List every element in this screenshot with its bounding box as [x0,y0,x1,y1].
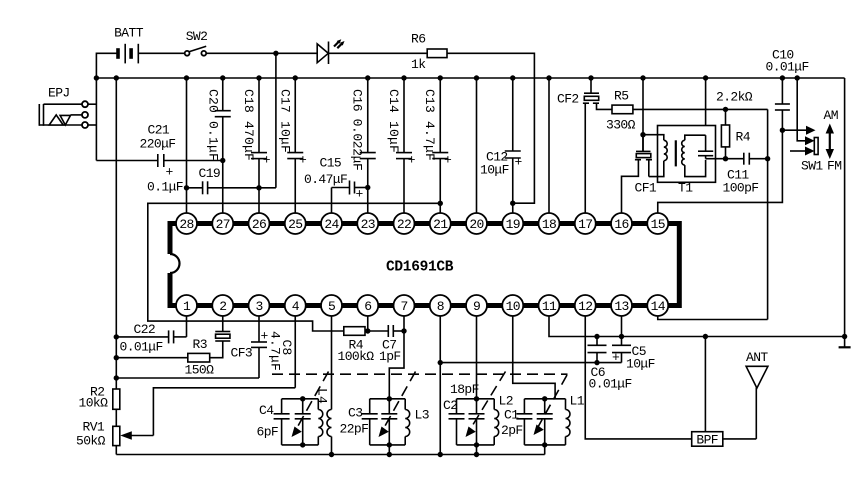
wire pin12 drop to BPF [585,316,691,439]
svg-text:T1: T1 [678,181,693,196]
svg-text:2pF: 2pF [501,423,523,438]
pin 6 [357,295,378,316]
wire T1 left drop [642,78,644,151]
inductor L4 [315,388,332,455]
node bus T1 right [703,75,708,80]
svg-text:16: 16 [614,217,628,232]
node bus x116 [114,75,119,80]
ceramic filter CF1 [622,135,657,213]
svg-text:+: + [612,350,620,365]
svg-text:C18 470μF: C18 470μF [241,89,256,161]
resistor R6 1k [411,32,447,73]
wire pin10 drop to C1 tank [513,316,555,399]
svg-text:330Ω: 330Ω [606,118,636,133]
svg-text:0.47μF: 0.47μF [304,172,347,187]
battery BATT [114,26,144,64]
wire R6 to pin19 net [447,53,535,203]
wire pin11 drop [549,316,845,337]
earphone jack EPJ [39,86,96,129]
node C6 bottom [594,360,599,365]
node pin7 C7 [401,328,406,333]
wire R5 to right riser [633,108,768,110]
capacitor C10 0.01uF [766,48,809,131]
svg-text:0.01μF: 0.01μF [766,59,809,74]
capacitor C17 10uF in pin25 line [278,78,308,213]
wire C8 bottom to left vertical [116,377,259,379]
pin 20 [466,213,487,234]
svg-text:220μF: 220μF [140,136,176,151]
svg-text:0.01μF: 0.01μF [120,340,163,355]
wire pin28 drop [186,78,188,213]
node C10 bottom SW1 [780,128,785,133]
pin 3 [249,295,270,316]
capacitor C7 1pF [368,325,404,364]
svg-text:18pF: 18pF [450,382,479,397]
node bus pin19 [510,75,515,80]
node T1 right top [703,133,708,138]
svg-text:CF1: CF1 [635,181,657,196]
node bus pin23 [365,75,370,80]
resistor R5 330ohm [606,89,636,133]
svg-text:5: 5 [328,299,335,314]
svg-text:R5: R5 [614,89,628,104]
pin 27 [212,213,233,234]
wire pin1 drop [186,316,188,337]
svg-text:27: 27 [216,217,230,232]
pin 2 [212,295,233,316]
pin 10 [502,295,523,316]
svg-text:+: + [261,329,269,344]
svg-text:21: 21 [433,217,448,232]
capacitor C19 0.1uF [147,166,276,195]
svg-text:C19: C19 [199,166,221,181]
pin 23 [357,213,378,234]
pin 7 [394,295,415,316]
node C3 tank top [387,396,392,401]
capacitor C8 4.7uF [251,316,294,378]
node R4 top on R5 wire [723,107,728,112]
svg-text:8: 8 [437,299,444,314]
svg-text:CF3: CF3 [231,346,253,361]
svg-text:1: 1 [183,299,191,314]
svg-text:CD1691CB: CD1691CB [386,260,454,276]
node L4 ground bus [329,452,334,457]
node T1 left top [640,132,645,137]
node C1 tank bottom [542,442,547,447]
node bus pin18 [546,75,551,80]
svg-text:R4: R4 [736,130,751,145]
capacitor C18 470uF in pin26 line [241,78,271,213]
inductor L3 [405,399,429,445]
pin 12 [575,295,596,316]
node pin6 R4 C7 [365,328,370,333]
svg-text:2.2kΩ: 2.2kΩ [716,90,753,105]
wire right edge to ground [844,78,846,337]
wire pin14 to riser x767 [658,316,768,320]
ground [839,337,851,348]
node C15 right pin23 [365,185,370,190]
antenna ANT [746,350,768,439]
node C1 tank top [542,396,547,401]
node bus pin25 [293,75,298,80]
wire C6 C5 bottom to pin8 [440,362,621,364]
svg-text:12: 12 [578,299,592,314]
wire pin13 drop [621,316,623,337]
wire bottom ground bus [116,454,544,456]
tank C3 L3 bottom wire [370,444,406,446]
svg-text:CF2: CF2 [557,92,579,107]
svg-text:24: 24 [324,217,339,232]
wire pin6 drop [367,316,369,331]
wire SW2 to LED [206,52,317,54]
capacitor C5 10uF [612,337,655,372]
pin 13 [611,295,632,316]
svg-text:C20 0.1μF: C20 0.1μF [206,89,221,161]
svg-text:4: 4 [292,299,300,314]
svg-text:+: + [408,153,416,168]
svg-text:6pF: 6pF [257,425,279,440]
wire main bus [96,77,844,79]
ceramic filter CF2 [557,78,612,213]
variable capacitor C1 trimmer [534,375,568,445]
capacitor C6 0.01uF [588,337,632,392]
svg-text:BATT: BATT [114,26,144,41]
node pin8 C6 wire [438,360,443,365]
node ground net right end [842,334,847,339]
wire T1 right drop [705,78,707,151]
tank C2 L2 bottom wire [457,444,495,446]
node C21 at pin27 line [220,158,225,163]
node bus T1 left [640,75,645,80]
svg-text:0.1μF: 0.1μF [147,180,183,195]
wire right riser x767 [767,109,769,319]
svg-text:+: + [515,155,523,170]
wire pin9 drop through C2 tank [476,316,478,414]
node bus pin28 [184,75,189,80]
variable capacitor C4 trimmer [292,372,329,445]
svg-text:RV1: RV1 [83,420,105,435]
node bus SW1 [795,75,800,80]
svg-text:AM: AM [824,108,838,123]
svg-text:SW1: SW1 [801,159,823,174]
svg-text:20: 20 [469,217,483,232]
svg-text:10kΩ: 10kΩ [79,396,109,411]
svg-text:100kΩ: 100kΩ [338,349,375,364]
svg-text:1k: 1k [411,57,426,72]
svg-text:1pF: 1pF [379,349,401,364]
node C8 wire left [114,375,119,380]
pin 19 [502,213,523,234]
wire left vertical x116 [115,78,117,389]
svg-text:10: 10 [506,299,520,314]
node ground net at pin13 [619,334,624,339]
pin 17 [575,213,596,234]
svg-text:C21: C21 [148,123,170,138]
tank C1 L1 top wire [524,398,565,400]
node C3 ground bus [387,452,392,457]
svg-text:50kΩ: 50kΩ [76,434,106,449]
svg-text:0.01μF: 0.01μF [589,377,632,392]
tank C4 L4 top wire [282,398,319,400]
svg-text:L2: L2 [499,394,513,409]
resistor R4 [721,109,750,158]
svg-text:+: + [356,187,364,202]
wire battery to SW2 [138,52,184,54]
inductor L1 [566,394,585,445]
switch SW1 AM/FM [782,78,823,174]
svg-text:22pF: 22pF [340,422,369,437]
pin 11 [539,295,560,316]
LED D1 [317,39,344,64]
node C2 tank top [474,396,479,401]
svg-text:C13 4.7μF: C13 4.7μF [422,89,437,161]
pin 5 [321,295,342,316]
node SW2 output to C19 net [273,51,278,188]
svg-text:C3: C3 [348,406,362,421]
svg-text:L3: L3 [415,408,429,423]
node R6 net at pin 19 [510,201,515,206]
svg-text:3: 3 [255,299,262,314]
svg-text:ANT: ANT [746,350,768,365]
resistor R3 150ohm [116,337,222,378]
svg-text:4.7μF: 4.7μF [268,331,283,371]
svg-text:SW2: SW2 [186,29,208,44]
node bus pin20 [474,75,479,80]
pin 8 [430,295,451,316]
svg-text:26: 26 [252,217,266,232]
wire top rail left [96,53,116,160]
node bus C10 [780,75,785,80]
svg-text:+: + [444,153,452,168]
svg-text:28: 28 [179,217,193,232]
pin 26 [249,213,270,234]
svg-text:10μF: 10μF [626,357,655,372]
wire pin20 drop [476,78,478,213]
svg-text:150Ω: 150Ω [185,363,215,378]
node C3 tank bottom [387,442,392,447]
svg-text:10μF: 10μF [480,163,509,178]
capacitor C16 0.022uF in pin23 line [350,78,376,213]
pin 14 [647,295,668,316]
capacitor C11 100pF [723,153,768,196]
band select double arrow [826,124,834,160]
wire pin18 drop [548,78,550,213]
svg-text:+: + [263,153,271,168]
node bus pin22 [401,75,406,80]
wire C3 tank to ground bus [388,445,390,455]
op-amp U1 CD1691CB IC body [170,221,679,308]
resistor R2 10k [79,385,120,427]
svg-text:9: 9 [473,299,480,314]
capacitor C12 10uF in pin19 line [480,78,523,213]
pin 9 [466,295,487,316]
svg-text:14: 14 [651,299,666,314]
wire pin9 tank lower [476,419,478,455]
svg-text:L4: L4 [315,388,330,404]
capacitor C14 10uF in pin22 line [386,78,416,213]
wire pin5 drop to L4 [331,316,333,410]
svg-text:C1: C1 [504,408,519,423]
svg-text:7: 7 [400,299,407,314]
node pin8 ground bus [438,452,443,457]
variable capacitor C3 trimmer [379,372,416,445]
svg-text:22: 22 [397,217,411,232]
svg-text:BPF: BPF [696,433,718,448]
svg-text:R3: R3 [193,337,207,352]
svg-text:EPJ: EPJ [48,86,70,101]
potentiometer RV1 50k [76,388,295,455]
wire pin7 drop to C3 tank [389,316,404,399]
capacitor C20 0.1uF in pin27 line [206,78,231,213]
svg-text:18: 18 [542,217,556,232]
node bus pin27 [220,75,225,80]
wire pin15 to SW1 net [658,130,783,213]
capacitor C1 2pF [501,399,532,445]
node C19 right pin26 [256,185,261,190]
svg-text:25: 25 [288,217,302,232]
pin 22 [394,213,415,234]
node C11 right [765,156,770,161]
node bus pin21 [438,75,443,80]
node C4 tank top [300,396,305,401]
svg-text:2: 2 [219,299,226,314]
node C2 tank bottom [474,442,479,447]
node pin9 ground bus [474,452,479,457]
node R3 left [114,355,119,360]
svg-text:6: 6 [364,299,371,314]
node C4 tank bottom [300,442,305,447]
pin 16 [611,213,632,234]
tank C4 L4 bottom wire [282,444,319,446]
node bus CF2 [588,75,593,80]
pin 15 [647,213,668,234]
inductor L2 [494,394,513,445]
node pin1 net at pin21 [438,201,443,206]
svg-text:+: + [166,165,174,180]
BPF block [692,337,757,448]
node bus x96 [94,75,99,80]
pin 28 [176,213,197,234]
svg-text:FM: FM [827,159,841,174]
capacitor C21 220uF [96,123,222,180]
transformer T1 [643,126,716,196]
tank C1 L1 bottom wire [524,444,565,446]
switch SW2 [185,29,208,56]
svg-text:R6: R6 [411,32,425,47]
tank C3 L3 top wire [370,398,406,400]
svg-text:15: 15 [651,217,665,232]
tank C2 L2 top wire [457,398,495,400]
pin 4 [285,295,306,316]
svg-text:23: 23 [361,217,375,232]
svg-text:13: 13 [614,299,628,314]
ceramic filter CF3 [215,316,252,361]
variable capacitor C2 trimmer [466,372,506,438]
wire C1 tank to ground bus end [544,445,546,455]
svg-text:C4: C4 [259,403,274,418]
svg-text:C16 0.022μF: C16 0.022μF [350,89,365,170]
capacitor C22 0.01uF [116,322,186,355]
wire T1 out to R4 C11 [706,158,744,160]
svg-text:100pF: 100pF [723,181,759,196]
wire pin4 drop [294,316,296,388]
svg-text:17: 17 [578,217,592,232]
capacitor C13 4.7uF in pin21 line [422,78,452,213]
svg-text:+: + [299,153,307,168]
node bus pin26 [256,75,261,80]
svg-text:C14 10μF: C14 10μF [386,89,401,153]
pin 18 [539,213,560,234]
wire pin1 net long line [148,203,440,331]
svg-text:11: 11 [542,299,557,314]
node C22 left [114,334,119,339]
wire pin8 drop [439,316,441,455]
pin 24 [321,213,342,234]
pin 1 [176,295,197,316]
capacitor C3 22pF [340,399,378,445]
pin 25 [285,213,306,234]
svg-text:C15: C15 [320,156,342,171]
node R4 bottom [723,156,728,161]
svg-text:C2: C2 [443,398,457,413]
capacitor C15 0.47uF at pin24 [304,156,368,214]
capacitor C2 18pF [443,382,479,445]
wire LED to R6 [329,52,428,54]
svg-text:C22: C22 [134,322,156,337]
pin 21 [430,213,451,234]
node ground net at BPF riser [703,334,708,339]
variable capacitor gang dashed line [272,373,568,375]
svg-text:C17 10μF: C17 10μF [278,89,293,153]
node C19 left pin28 [184,185,189,190]
resistor R4 100k [338,327,375,364]
svg-text:L1: L1 [570,394,585,409]
capacitor C4 6pF [257,399,290,445]
svg-text:19: 19 [506,217,520,232]
node ground net at C6 [594,334,599,339]
